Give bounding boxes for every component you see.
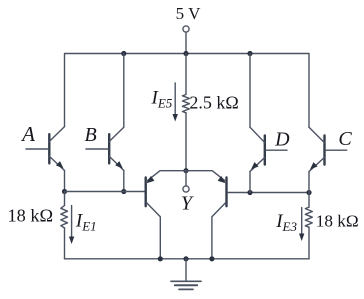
resistor R1 18 kOhm (left) (61, 192, 68, 259)
resistor R5 2.5 kOhm (center) (182, 54, 189, 171)
transistor Q6 (middle right) (186, 171, 227, 259)
wire: top rail (65, 54, 310, 128)
transistor C (309, 127, 347, 171)
wire: D emitter vertical (249, 172, 251, 193)
wire: B collector vertical (123, 54, 125, 128)
wire: left node line (65, 191, 145, 193)
wire: right node line (228, 192, 309, 194)
transistor B (86, 127, 124, 170)
transistor A (26, 127, 65, 171)
output terminal Y (open circle) (183, 186, 189, 192)
node dot: ground stem / rail (183, 256, 188, 261)
node dot: Q6 collector / rail (209, 256, 214, 261)
svg-text:2.5 kΩ: 2.5 kΩ (189, 92, 238, 112)
wire: C emitter vertical (308, 172, 310, 193)
node dot: C emitter / 18k (306, 190, 311, 195)
resistor R3 18 kOhm (right) (305, 193, 312, 259)
node dot: supply / rail (183, 51, 188, 56)
wire: B emitter vertical (123, 171, 125, 192)
transistor D (250, 127, 287, 171)
supply terminal (open circle) (183, 26, 189, 32)
node dot: D collector / rail (247, 51, 252, 56)
current arrow I_E5 (173, 83, 178, 122)
ground (171, 259, 201, 290)
wire: D collector vertical (249, 54, 251, 128)
node dot: center node (183, 168, 188, 173)
svg-text:5 V: 5 V (176, 4, 201, 23)
wire: supply stem (185, 32, 187, 53)
output stem (185, 171, 187, 186)
svg-text:IE1: IE1 (75, 211, 97, 234)
svg-text:18 kΩ: 18 kΩ (8, 206, 54, 226)
svg-text:18 kΩ: 18 kΩ (316, 212, 359, 231)
svg-text:IE5: IE5 (151, 88, 173, 111)
node dot: A emitter / 18k (62, 189, 67, 194)
wire: bottom rail (65, 258, 310, 260)
node dot: D emitter / node line (247, 190, 252, 195)
svg-text:IE3: IE3 (275, 211, 297, 234)
svg-text:Y: Y (181, 193, 194, 215)
node dot: Q5 collector / rail (158, 256, 163, 261)
current arrow I_E3 (299, 208, 304, 241)
svg-text:B: B (84, 124, 96, 146)
current arrow I_E1 (69, 206, 74, 244)
svg-text:C: C (338, 128, 352, 150)
node dot: B emitter / node line (121, 189, 126, 194)
svg-text:A: A (20, 122, 35, 146)
svg-text:D: D (274, 129, 290, 151)
node dot: B collector / rail (121, 51, 126, 56)
wire: A emitter vertical (64, 171, 66, 192)
transistor Q5 (middle left) (146, 171, 186, 259)
